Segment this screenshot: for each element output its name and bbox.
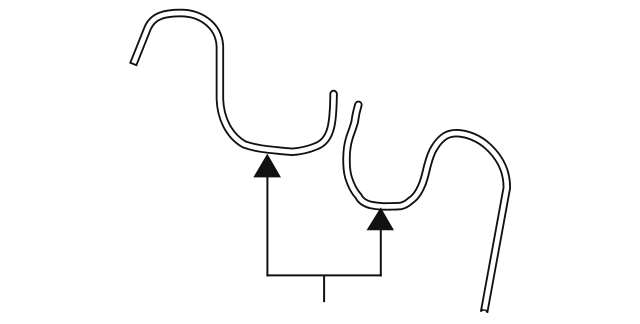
bracket horizontal joining line xyxy=(266,274,381,276)
moulding part 2 bottom notched end cap xyxy=(481,311,486,316)
moulding part 1 rounded end cap (right hook end) xyxy=(329,90,337,98)
leader line from arrowhead 1 xyxy=(266,176,268,276)
leader line from arrowhead 2 xyxy=(380,229,382,276)
moulding part 1 (left tube) black body xyxy=(133,13,338,152)
moulding part 1 white core (makes double-line outline) xyxy=(134,13,336,152)
moulding part 2 rounded end cap (top end) xyxy=(354,101,362,109)
callout arrowhead 1 (points to left moulding) xyxy=(253,154,281,178)
bracket center drop line xyxy=(323,275,325,302)
moulding part 2 (right tube) black body xyxy=(346,101,506,313)
moulding part 2 white core (makes double-line outline) xyxy=(346,102,506,315)
callout arrowhead 2 (points to right moulding) xyxy=(367,207,395,230)
